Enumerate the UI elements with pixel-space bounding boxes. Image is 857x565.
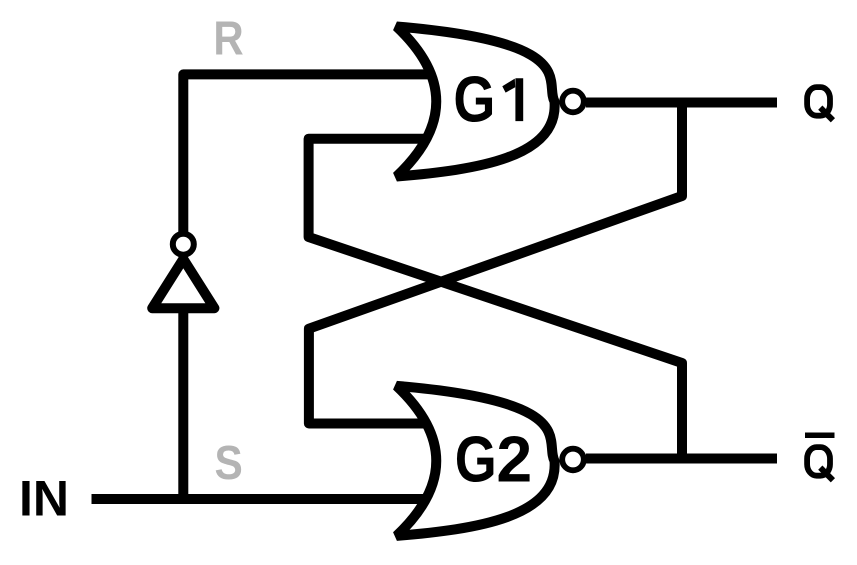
wire inverter input stem (junction with IN wire) — [178, 308, 188, 499]
wire feedback G1 output to G2 upper input — [309, 103, 682, 424]
NOR gate G2 output bubble — [562, 449, 584, 471]
svg-text:S: S — [215, 437, 243, 490]
wire feedback G2 output to G1 lower input — [309, 139, 682, 459]
inverter U1 triangle — [152, 259, 214, 308]
NOR gate G1 output bubble — [562, 91, 584, 113]
svg-text:IN: IN — [19, 470, 69, 526]
label Qbar overline — [805, 433, 835, 439]
wire G2 output to Qbar — [586, 454, 777, 464]
NOR gate G1 body — [397, 27, 555, 177]
label Q — [807, 87, 830, 116]
svg-text:G: G — [455, 423, 497, 496]
label Qbar — [807, 447, 830, 476]
wire inverter output to R corner — [183, 74, 448, 232]
wire IN horizontal (S input to G2) — [92, 494, 449, 504]
svg-text:G: G — [453, 63, 495, 136]
wire G1 output to Q — [586, 98, 777, 108]
inverter U1 output bubble — [173, 234, 194, 255]
NOR gate G2 body — [397, 386, 555, 536]
svg-text:R: R — [213, 13, 243, 66]
svg-text:2: 2 — [496, 423, 532, 496]
